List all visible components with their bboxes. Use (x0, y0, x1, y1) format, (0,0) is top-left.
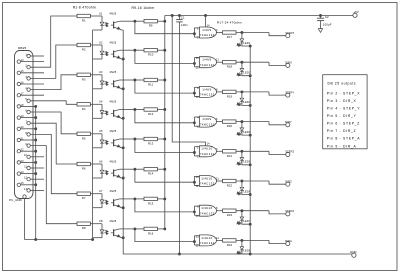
svg-text:11: 11 (216, 59, 219, 62)
resistor R17 (219, 31, 269, 39)
wire gnd bus bottom (123, 238, 352, 255)
svg-text:LED3: LED3 (243, 100, 250, 104)
svg-text:3: 3 (216, 148, 218, 151)
wire pin10 stub (30, 156, 44, 158)
resistor R21 (219, 150, 269, 158)
wire R6 to U6 (90, 163, 102, 165)
resistor R18 (219, 61, 269, 69)
resistor R23 (219, 209, 269, 217)
svg-text:R9-16 1kohm: R9-16 1kohm (132, 6, 155, 10)
svg-text:13: 13 (24, 188, 27, 191)
svg-text:LED2: LED2 (243, 71, 250, 75)
resistor R24 (219, 239, 269, 247)
svg-text:13: 13 (196, 57, 200, 60)
svg-text:11: 11 (216, 237, 219, 240)
svg-text:LED7: LED7 (243, 219, 250, 223)
nand gate 1/4U10 74HC132 ch7 (196, 205, 219, 218)
svg-text:4N25: 4N25 (110, 129, 117, 133)
svg-text:11: 11 (216, 178, 219, 181)
wire pin13 stub (30, 189, 44, 191)
svg-text:3: 3 (216, 29, 218, 32)
optocoupler U3 4N25 (93, 70, 124, 89)
output pin STEPA (269, 209, 294, 216)
resistor R10 (135, 49, 166, 57)
svg-text:R8: R8 (82, 226, 86, 230)
wire U4 collector (120, 109, 136, 111)
optocoupler U5 4N25 (93, 129, 124, 148)
resistor R13 (135, 137, 166, 145)
optocoupler U6 4N25 (93, 159, 124, 178)
svg-text:Pin 7 - DIR_Z: Pin 7 - DIR_Z (327, 129, 357, 133)
node emitter U7 gnd (122, 207, 124, 209)
output pin STEPY (269, 90, 295, 97)
svg-text:4N25: 4N25 (110, 189, 117, 193)
wire R2 to U2 (90, 44, 102, 46)
svg-text:100n: 100n (181, 23, 188, 27)
svg-text:R17: R17 (227, 35, 233, 39)
wire R1 to U1 (90, 15, 102, 17)
resistor R5 (77, 132, 90, 140)
svg-text:DIRZ: DIRZ (285, 179, 292, 183)
svg-text:6: 6 (216, 118, 218, 121)
wire PC gnd bus (92, 30, 94, 240)
label R1-8 470ohm (73, 5, 96, 9)
optocoupler U4 4N25 (93, 100, 124, 119)
ground C2 (318, 29, 322, 33)
wire U2 to gate input (135, 50, 200, 67)
svg-text:1/4U10: 1/4U10 (201, 147, 212, 151)
label PC_GND (9, 198, 22, 202)
svg-text:1/4U9: 1/4U9 (202, 58, 211, 62)
svg-text:Pin 9 - DIR_A: Pin 9 - DIR_A (327, 144, 357, 148)
svg-text:U4: U4 (99, 100, 103, 104)
wire U10 pin 14 (172, 16, 210, 146)
ground output GND (350, 250, 357, 257)
svg-text:13: 13 (196, 235, 200, 238)
svg-text:STEPY: STEPY (285, 90, 294, 94)
nand gate 1/4U10 74HC132 ch5 (197, 146, 219, 159)
power +5V (353, 10, 359, 17)
svg-text:12: 12 (196, 66, 200, 69)
svg-text:1/4U9: 1/4U9 (202, 117, 211, 121)
svg-text:R9: R9 (149, 24, 153, 28)
output pin DIRZ (269, 179, 292, 186)
svg-text:14: 14 (207, 143, 210, 146)
wire U8 collector (120, 228, 136, 230)
svg-text:74HC132: 74HC132 (200, 152, 215, 156)
node LED5 gnd (249, 164, 251, 166)
wire U3 to gate input (135, 80, 200, 97)
wire pin3 to R2 (30, 45, 77, 78)
wire U7 to gate input (135, 199, 200, 215)
wire emitter gnd bus (122, 30, 124, 238)
svg-text:Pin 6 - STEP_Z: Pin 6 - STEP_Z (327, 122, 360, 126)
svg-text:74HC132: 74HC132 (200, 93, 215, 97)
svg-text:4N25: 4N25 (110, 159, 117, 163)
wire U2 collector (120, 49, 136, 51)
wire pin14 stub (21, 61, 45, 63)
resistor R1 (77, 14, 90, 22)
nand gate 1/4U9 74HC132 ch1 (197, 27, 219, 40)
resistor R9 (135, 20, 166, 28)
svg-text:Pin 8 - STEP_A: Pin 8 - STEP_A (327, 137, 361, 141)
svg-text:74HC132: 74HC132 (200, 211, 215, 215)
svg-text:R12: R12 (148, 112, 154, 116)
svg-text:C1: C1 (181, 16, 185, 20)
svg-text:R20: R20 (227, 124, 233, 128)
wire pin2 to R1 (30, 16, 77, 67)
node LED7 gnd (249, 223, 251, 225)
svg-text:13: 13 (196, 176, 200, 179)
wire R4 to U4 (90, 103, 102, 105)
wire U9 pin 14 (206, 16, 211, 28)
svg-text:DB25: DB25 (18, 46, 26, 50)
wire U5 collector (120, 138, 136, 140)
svg-text:DIRA: DIRA (285, 239, 292, 243)
optocoupler U1 4N25 (93, 11, 124, 30)
svg-text:R24: R24 (227, 243, 233, 247)
wire R8 to U8 (90, 223, 102, 225)
node LED2 gnd (249, 75, 251, 77)
wire R5 to U5 (90, 133, 102, 135)
svg-text:U3: U3 (99, 70, 103, 74)
node LED3 gnd (249, 104, 251, 106)
node emitter U5 gnd (122, 147, 124, 149)
svg-text:C2: C2 (325, 15, 329, 19)
wire pin17 stub (21, 94, 45, 96)
optocoupler U7 4N25 (93, 189, 124, 208)
svg-text:U7: U7 (99, 189, 103, 193)
svg-text:R16: R16 (148, 231, 154, 235)
svg-text:8: 8 (216, 207, 218, 210)
svg-text:R11: R11 (148, 83, 154, 87)
svg-text:1/4U10: 1/4U10 (201, 206, 212, 210)
svg-text:R19: R19 (227, 94, 233, 98)
svg-text:R1-8 470ohm: R1-8 470ohm (73, 5, 96, 9)
label R9-16 1kohm (132, 6, 155, 10)
output pin DIRY (269, 120, 292, 127)
wire U8 to gate input (135, 229, 200, 245)
wire pin4 to R3 (30, 75, 77, 90)
wire pin5 to R4 (30, 101, 77, 105)
svg-text:12: 12 (196, 245, 200, 248)
svg-text:74HC132: 74HC132 (200, 241, 215, 245)
capacitor C2 100uF (317, 15, 332, 29)
svg-text:100μF: 100μF (323, 23, 332, 27)
nand gate 1/4U9 74HC132 ch3 (196, 86, 219, 99)
svg-text:14: 14 (207, 24, 210, 27)
svg-text:LED5: LED5 (243, 160, 250, 164)
label R17-24 470ohm (217, 21, 243, 25)
wire R3 to U3 (90, 74, 102, 76)
svg-text:DIRY: DIRY (285, 120, 292, 124)
led LED1 (237, 33, 251, 47)
wire pin6 to R5 (30, 112, 77, 134)
svg-text:R18: R18 (227, 65, 233, 69)
nand gate 1/4U9 74HC132 ch2 (196, 57, 220, 70)
wire U6 to gate input (135, 169, 200, 185)
svg-text:12: 12 (24, 177, 27, 180)
svg-text:U6: U6 (99, 159, 103, 163)
svg-text:10: 10 (24, 154, 27, 157)
note box DB 25 outputs (323, 75, 367, 149)
node emitter U4 gnd (122, 117, 124, 119)
output pin STEPX (269, 31, 295, 38)
svg-text:R14: R14 (148, 172, 154, 176)
wire +5V bus (165, 15, 353, 229)
output pin DIRX (269, 61, 292, 68)
svg-text:+5V: +5V (353, 10, 359, 14)
resistor R6 (77, 162, 90, 170)
connector J1 DB25 (15, 46, 34, 198)
svg-text:R5: R5 (82, 136, 86, 140)
resistor R16 (135, 227, 166, 235)
svg-text:Pin 5 - DIR_Y: Pin 5 - DIR_Y (327, 114, 357, 118)
svg-text:STEPA: STEPA (285, 209, 294, 213)
svg-text:1/4U10: 1/4U10 (201, 176, 212, 180)
resistor R12 (135, 108, 166, 116)
svg-text:1/4U9: 1/4U9 (202, 28, 211, 32)
svg-text:8: 8 (216, 88, 218, 91)
resistor R2 (77, 43, 90, 51)
optocoupler U2 4N25 (93, 40, 124, 59)
led LED5 (237, 151, 251, 165)
wire pin9 to R8 (30, 146, 77, 224)
nand gate 1/4U10 74HC132 ch6 (196, 176, 220, 189)
svg-text:74HC132: 74HC132 (200, 63, 215, 67)
svg-text:R21: R21 (227, 154, 233, 158)
resistor R20 (219, 120, 269, 128)
svg-text:R6: R6 (82, 167, 86, 171)
wire U1 to gate input (135, 21, 200, 37)
wire U4 to gate input (135, 110, 200, 127)
led LED3 (237, 92, 251, 106)
svg-text:U8: U8 (99, 219, 103, 223)
svg-text:U5: U5 (99, 129, 103, 133)
svg-text:LED8: LED8 (243, 249, 250, 253)
led LED4 (237, 122, 251, 136)
svg-text:U1: U1 (99, 11, 103, 15)
svg-text:4N25: 4N25 (110, 70, 117, 74)
node emitter U6 gnd (122, 177, 124, 179)
svg-text:10: 10 (196, 215, 200, 218)
svg-text:LED6: LED6 (243, 189, 250, 193)
resistor R22 (219, 179, 269, 187)
svg-text:74HC132: 74HC132 (200, 182, 215, 186)
node emitter U8 gnd (122, 237, 124, 239)
led LED2 (237, 62, 251, 76)
svg-text:STEPZ: STEPZ (285, 150, 294, 154)
svg-text:LED1: LED1 (243, 41, 250, 45)
svg-text:GND: GND (350, 250, 357, 254)
svg-text:R17-24 470ohm: R17-24 470ohm (217, 21, 243, 25)
svg-text:Pin 2 - STEP_X: Pin 2 - STEP_X (327, 91, 361, 95)
svg-text:R2: R2 (82, 48, 86, 52)
resistor R8 (77, 222, 90, 230)
wire U5 to gate input (135, 139, 200, 156)
wire U3 collector (120, 79, 136, 81)
svg-text:1/4U10: 1/4U10 (201, 236, 212, 240)
wire pin12 stub (30, 178, 44, 180)
svg-text:DIRX: DIRX (285, 61, 292, 65)
capacitor C1 100n (176, 16, 188, 255)
wire led gnd bus (249, 46, 251, 254)
nand gate 1/4U9 74HC132 ch4 (197, 116, 219, 129)
node LED4 gnd (249, 134, 251, 136)
svg-text:R10: R10 (148, 53, 154, 57)
wire pin1 stub (30, 55, 44, 57)
node emitter U2 gnd (122, 58, 124, 60)
svg-text:R1: R1 (82, 19, 86, 23)
led LED6 (237, 181, 251, 195)
resistor R11 (135, 78, 166, 86)
led LED8 (237, 240, 251, 254)
resistor R7 (77, 192, 90, 200)
resistor R14 (135, 168, 166, 176)
wire U7 collector (120, 198, 136, 200)
svg-text:4N25: 4N25 (110, 40, 117, 44)
node LED6 gnd (249, 194, 251, 196)
svg-text:PC_GND: PC_GND (9, 198, 22, 202)
svg-text:R4: R4 (82, 107, 86, 111)
wire pin7 to R6 (30, 123, 77, 164)
resistor R4 (77, 103, 90, 111)
svg-text:DB 25 outputs: DB 25 outputs (328, 81, 357, 85)
nand gate 1/4U10 74HC132 ch8 (196, 235, 220, 248)
svg-text:Pin 3 - DIR_X: Pin 3 - DIR_X (327, 99, 357, 103)
wire pin11 stub (30, 167, 44, 169)
svg-text:4N25: 4N25 (110, 11, 117, 15)
svg-text:74HC132: 74HC132 (200, 122, 215, 126)
svg-text:4N25: 4N25 (110, 219, 117, 223)
svg-text:R13: R13 (148, 142, 154, 146)
output pin DIRA (269, 239, 292, 246)
resistor R19 (219, 90, 269, 98)
svg-text:4N25: 4N25 (110, 100, 117, 104)
wire PC_GND (25, 198, 94, 240)
svg-text:10: 10 (196, 96, 200, 99)
wire pin15 stub (21, 72, 45, 74)
wire pin8 to R7 (30, 134, 77, 193)
led LED7 (237, 211, 251, 225)
wire U6 collector (120, 168, 136, 170)
resistor R15 (135, 197, 166, 205)
wire pin16 stub (21, 83, 45, 85)
svg-text:R22: R22 (227, 184, 233, 188)
wire R7 to U7 (90, 193, 102, 195)
svg-text:R15: R15 (148, 201, 154, 205)
resistor R3 (77, 73, 90, 81)
node emitter U3 gnd (122, 88, 124, 90)
svg-text:74HC132: 74HC132 (200, 33, 215, 37)
wire U1 collector (120, 20, 136, 22)
wire gnd tie pins 18-25 (21, 105, 37, 239)
svg-text:R23: R23 (227, 213, 233, 217)
output pin STEPZ (269, 150, 295, 157)
svg-text:12: 12 (196, 185, 200, 188)
svg-text:R3: R3 (82, 77, 86, 81)
node LED1 gnd (249, 45, 251, 47)
optocoupler U8 4N25 (93, 219, 124, 238)
svg-text:Pin 4 - STEP_Y: Pin 4 - STEP_Y (327, 107, 361, 111)
svg-text:R7: R7 (82, 196, 86, 200)
svg-text:STEPX: STEPX (285, 31, 294, 35)
svg-text:LED4: LED4 (243, 130, 250, 134)
svg-text:U2: U2 (99, 40, 103, 44)
svg-text:1/4U9: 1/4U9 (202, 87, 211, 91)
